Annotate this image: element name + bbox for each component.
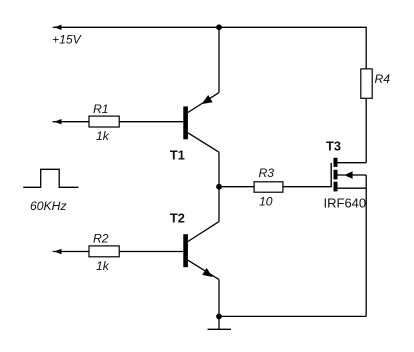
value 1k	[96, 259, 110, 273]
svg-text:1k: 1k	[96, 259, 110, 273]
svg-text:60KHz: 60KHz	[30, 199, 67, 213]
svg-text:R1: R1	[93, 102, 109, 116]
node top junction	[216, 24, 222, 30]
svg-text:R4: R4	[375, 72, 391, 86]
svg-text:10: 10	[259, 195, 273, 209]
svg-text:T1: T1	[170, 148, 185, 163]
wire R4 to T3 drain	[365, 98, 367, 162]
label R4	[375, 72, 391, 86]
resistor R3	[254, 182, 283, 192]
wire T2 emitter vertical	[218, 280, 220, 317]
wire right rail upper	[365, 27, 367, 69]
wire top +15V rail	[54, 26, 366, 28]
svg-text:R3: R3	[259, 166, 275, 180]
value 10	[259, 195, 273, 209]
label 60KHz	[30, 199, 67, 213]
label R2	[93, 232, 109, 246]
label R3	[259, 166, 275, 180]
transistor T2	[183, 222, 219, 280]
svg-text:R2: R2	[93, 232, 109, 246]
svg-text:1k: 1k	[96, 129, 110, 143]
wire junction to R3	[219, 186, 254, 188]
wire T3 source rail	[365, 175, 367, 316]
label IRF640	[324, 196, 367, 211]
wire ground stem	[218, 316, 220, 329]
wire T3 source	[338, 187, 367, 189]
node ground junction	[216, 314, 222, 320]
pulse waveform symbol	[23, 169, 78, 187]
resistor R4	[361, 69, 372, 98]
wire T1 collector vertical	[218, 152, 220, 187]
resistor R2	[53, 246, 120, 257]
label T1	[170, 148, 185, 163]
wire bottom return	[219, 315, 366, 317]
+15V supply arrow	[53, 25, 62, 30]
label T3	[326, 139, 341, 154]
label T2	[170, 211, 185, 226]
svg-text:IRF640: IRF640	[324, 196, 367, 211]
transistor T1	[183, 93, 219, 153]
transistor T3 (MOSFET)	[331, 158, 366, 192]
label R1	[93, 102, 109, 116]
ground	[208, 328, 232, 330]
wire T2 collector vertical	[218, 187, 220, 222]
wire R1 to T1 base	[119, 121, 183, 123]
node center junction	[216, 184, 222, 190]
value 1k	[96, 129, 110, 143]
resistor R1	[53, 116, 120, 127]
wire T1 emitter vertical	[218, 27, 220, 92]
label +15V	[52, 33, 83, 47]
wire T3 drain	[338, 162, 367, 164]
wire R2 to T2 base	[119, 251, 183, 253]
svg-text:T3: T3	[326, 139, 341, 154]
svg-text:+15V: +15V	[52, 33, 83, 47]
svg-text:T2: T2	[170, 211, 185, 226]
wire R3 to T3 gate	[283, 186, 331, 188]
